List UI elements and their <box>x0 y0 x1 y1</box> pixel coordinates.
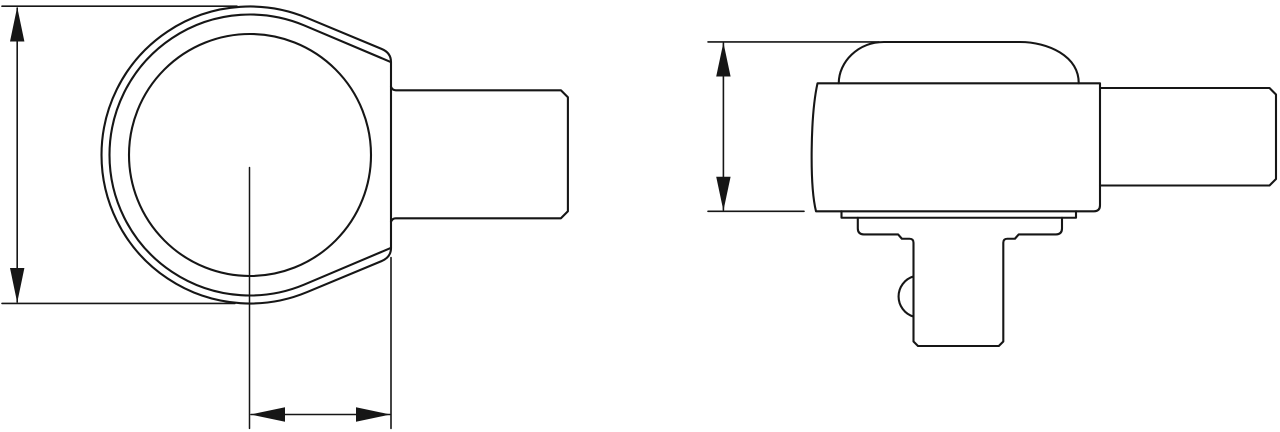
left dimension: upper arrowhead <box>10 7 24 42</box>
bottom dimension: right arrowhead <box>356 407 390 421</box>
right dimension: lower arrowhead <box>716 177 730 211</box>
left dimension: vertical dimension line <box>16 8 18 302</box>
right dimension: bottom extension line <box>708 210 804 212</box>
right dimension: upper arrowhead <box>716 43 730 77</box>
left view: 9x12 tang (front) <box>391 87 568 222</box>
left dimension: top extension line <box>2 5 237 7</box>
bottom dimension: right extension line <box>390 258 392 429</box>
bottom dimension: left arrowhead <box>251 407 285 421</box>
right view: detent ball <box>899 276 914 316</box>
left view: vertical centerline <box>249 168 251 429</box>
left dimension: bottom extension line <box>2 302 235 304</box>
left view: retaining band inner edge <box>109 14 390 295</box>
right view: step collar and square drive <box>858 218 1062 346</box>
left dimension: lower arrowhead <box>10 268 24 303</box>
bottom dimension: horizontal dimension line <box>251 414 390 416</box>
right view: head body <box>812 83 1100 211</box>
right dimension: vertical dimension line <box>722 43 724 210</box>
right view: flange plate below body <box>842 211 1077 217</box>
right view: 9x12 tang (side) <box>1100 88 1276 186</box>
right view: top cap <box>839 42 1079 83</box>
left view: ratchet wheel inner circle <box>129 34 371 276</box>
right dimension: top extension line <box>708 41 879 43</box>
left view: head outer contour <box>102 6 391 303</box>
